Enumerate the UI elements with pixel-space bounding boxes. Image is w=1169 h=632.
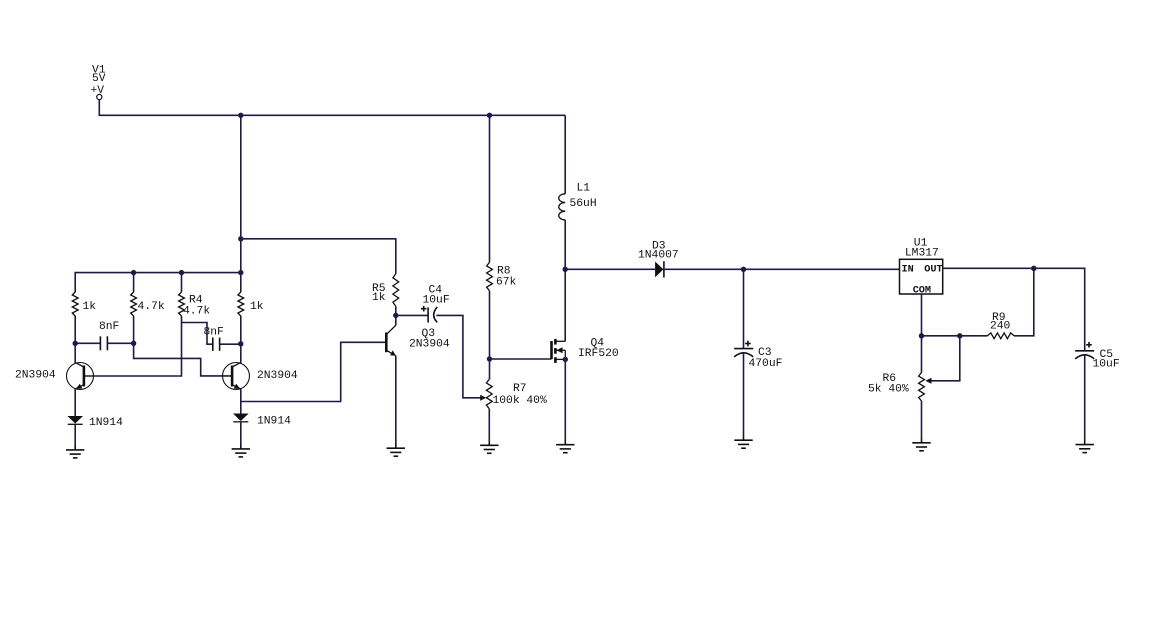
svg-text:10uF: 10uF xyxy=(423,295,450,307)
svg-text:5V: 5V xyxy=(92,73,106,85)
wire R7 top lead xyxy=(489,359,491,379)
svg-text:10uF: 10uF xyxy=(1093,359,1120,371)
node bus / R4 xyxy=(179,270,184,275)
wire D3 cathode to U1 IN xyxy=(664,268,900,270)
node +V terminal xyxy=(97,94,102,99)
node junction top rail / R8 xyxy=(487,113,492,118)
wire 4.7k bottom lead xyxy=(133,316,135,343)
svg-text:8nF: 8nF xyxy=(204,326,224,338)
svg-text:LM317: LM317 xyxy=(905,248,939,260)
node junction resistor bus xyxy=(238,270,243,275)
node junction top rail / R-bus column xyxy=(238,113,243,118)
wire R8 top lead xyxy=(489,115,491,262)
wire R4 branch to right cap xyxy=(182,323,213,345)
node COM junction xyxy=(919,333,924,338)
wire D2 to ground xyxy=(240,422,242,445)
wire R4 bottom to Q1 base xyxy=(84,316,182,376)
svg-text:1k: 1k xyxy=(250,301,264,313)
wire L1 bottom lead xyxy=(564,220,566,269)
transistor Q1 2N3904 xyxy=(67,363,94,390)
wire R7 bottom lead xyxy=(488,409,490,442)
resistor 4.7k (Q2 base) xyxy=(131,292,137,316)
svg-text:IN: IN xyxy=(902,265,914,276)
svg-text:R7: R7 xyxy=(513,383,527,395)
wire Q2 emitter lead xyxy=(240,389,242,414)
wire COM to R9 xyxy=(922,335,988,337)
wire branch to R5 xyxy=(241,239,396,274)
wire right 1k bottom lead xyxy=(240,316,242,363)
wire Q4 source to ground xyxy=(564,359,566,441)
wire R6 wiper branch xyxy=(928,336,960,381)
svg-text:240: 240 xyxy=(990,321,1011,333)
wire to left cap xyxy=(75,342,100,344)
wire L1 top lead xyxy=(564,115,566,194)
node L1 / D3 / Q4 drain xyxy=(563,267,568,272)
resistor R5 1k xyxy=(393,274,399,307)
wire junction to C4 xyxy=(396,314,428,316)
wire R9 right lead xyxy=(1014,268,1034,336)
svg-text:1k: 1k xyxy=(83,301,97,313)
capacitor C3 470uF xyxy=(734,348,753,350)
ground (Q1) xyxy=(74,446,76,450)
ground (Q3) xyxy=(395,444,397,448)
wire Q3 emitter to ground xyxy=(395,356,397,445)
node C3 top xyxy=(741,267,746,272)
svg-text:IRF520: IRF520 xyxy=(578,348,619,360)
resistor 1k (right, Q2 collector) xyxy=(238,292,244,316)
capacitor C5 10uF xyxy=(1075,350,1094,352)
R6 wiper arrow xyxy=(925,378,931,384)
diode 1N914 (under Q2) xyxy=(233,414,249,422)
node Q1 collector / cap xyxy=(73,341,78,346)
svg-text:1N914: 1N914 xyxy=(89,417,123,429)
wire U1 COM down xyxy=(921,294,923,373)
wire R8 bottom lead xyxy=(489,291,491,359)
node R8 / R7 / Q4 gate xyxy=(487,356,492,361)
resistor R4 4.7k (Q1 base) xyxy=(179,292,185,316)
wire Q2 emitter to Q3 base xyxy=(241,342,386,401)
capacitor C4 10uF xyxy=(427,307,429,322)
wire C4 to R7 wiper xyxy=(436,315,483,397)
wire +V down and top rail to L1 xyxy=(99,100,565,116)
svg-text:1N4007: 1N4007 xyxy=(638,250,679,262)
ground (Q4) xyxy=(564,441,566,445)
transistor Q4 IRF520 mosfet xyxy=(550,341,553,359)
svg-text:470uF: 470uF xyxy=(749,358,783,370)
wire R5 bottom lead xyxy=(395,306,397,315)
svg-text:4.7k: 4.7k xyxy=(138,301,165,313)
ground (C3) xyxy=(743,436,745,440)
node Q2 base net xyxy=(131,341,136,346)
diode 1N914 (under Q1) xyxy=(67,416,83,424)
wire C3 bottom lead xyxy=(743,353,745,436)
svg-text:8nF: 8nF xyxy=(99,321,119,333)
resistor R8 67k xyxy=(487,262,493,291)
wire resistor bus xyxy=(75,273,241,292)
resistor R9 240 xyxy=(988,333,1015,339)
node bus / 4.7k xyxy=(131,270,136,275)
wire D1 to ground xyxy=(74,425,76,446)
transistor Q3 2N3904 xyxy=(385,333,388,353)
R7 wiper arrow xyxy=(480,395,486,401)
node junction R5 branch xyxy=(238,236,243,241)
svg-text:56uH: 56uH xyxy=(570,198,597,210)
ground (R6) xyxy=(921,439,923,443)
ground (Q2) xyxy=(240,445,242,449)
wire C5 bottom lead xyxy=(1084,355,1086,441)
inductor L1 56uH xyxy=(559,194,565,220)
capacitor 8nF (right) xyxy=(212,338,214,351)
node R5/C4/Q3 junction xyxy=(393,313,398,318)
wire gate lead xyxy=(490,358,552,360)
svg-text:67k: 67k xyxy=(496,276,517,288)
svg-text:OUT: OUT xyxy=(924,265,942,276)
svg-text:L1: L1 xyxy=(577,182,591,194)
resistor 1k (left, Q1 collector) xyxy=(72,292,78,316)
wire Q3 collector lead xyxy=(395,315,397,325)
wire rail column down xyxy=(240,115,242,292)
capacitor 8nF (left) xyxy=(99,336,101,350)
svg-text:1N914: 1N914 xyxy=(257,415,291,427)
node Q4 source xyxy=(563,357,568,362)
wire Q1 emitter lead xyxy=(74,389,76,416)
wire C3 top lead xyxy=(743,269,745,348)
svg-text:4.7k: 4.7k xyxy=(183,306,210,318)
wire Q4 drain lead xyxy=(564,269,566,341)
node R6 wiper branch xyxy=(957,333,962,338)
wire Q2 base net to Q2 base xyxy=(134,343,233,376)
wire 1k left bottom lead xyxy=(74,316,76,343)
wire right cap to Q2 collector xyxy=(220,343,241,345)
diode D3 1N4007 xyxy=(655,262,663,278)
wire R4 top lead xyxy=(181,273,183,292)
resistor R7 100k pot xyxy=(486,379,492,409)
svg-text:2N3904: 2N3904 xyxy=(15,370,56,382)
wire R6 bottom lead xyxy=(921,401,923,439)
wire 4.7k top lead xyxy=(133,273,135,292)
transistor Q2 2N3904 xyxy=(223,363,250,390)
ground (C5) xyxy=(1084,441,1086,445)
ground (R7) xyxy=(488,441,490,445)
svg-text:5k 40%: 5k 40% xyxy=(868,383,909,395)
svg-text:100k 40%: 100k 40% xyxy=(493,395,547,407)
wire D3 anode xyxy=(565,268,655,270)
wire U1 OUT to C5 xyxy=(943,268,1085,351)
svg-text:2N3904: 2N3904 xyxy=(409,339,450,351)
svg-text:1k: 1k xyxy=(372,292,386,304)
op-amp U1 LM317 regulator xyxy=(900,259,943,294)
node Q2 collector / cap xyxy=(238,341,243,346)
resistor R6 5k pot xyxy=(919,373,925,402)
wire Q1 collector lead xyxy=(74,343,76,363)
svg-text:2N3904: 2N3904 xyxy=(257,370,298,382)
node OUT / R9 branch xyxy=(1031,266,1036,271)
wire left cap to 4.7k bottom xyxy=(107,342,133,344)
